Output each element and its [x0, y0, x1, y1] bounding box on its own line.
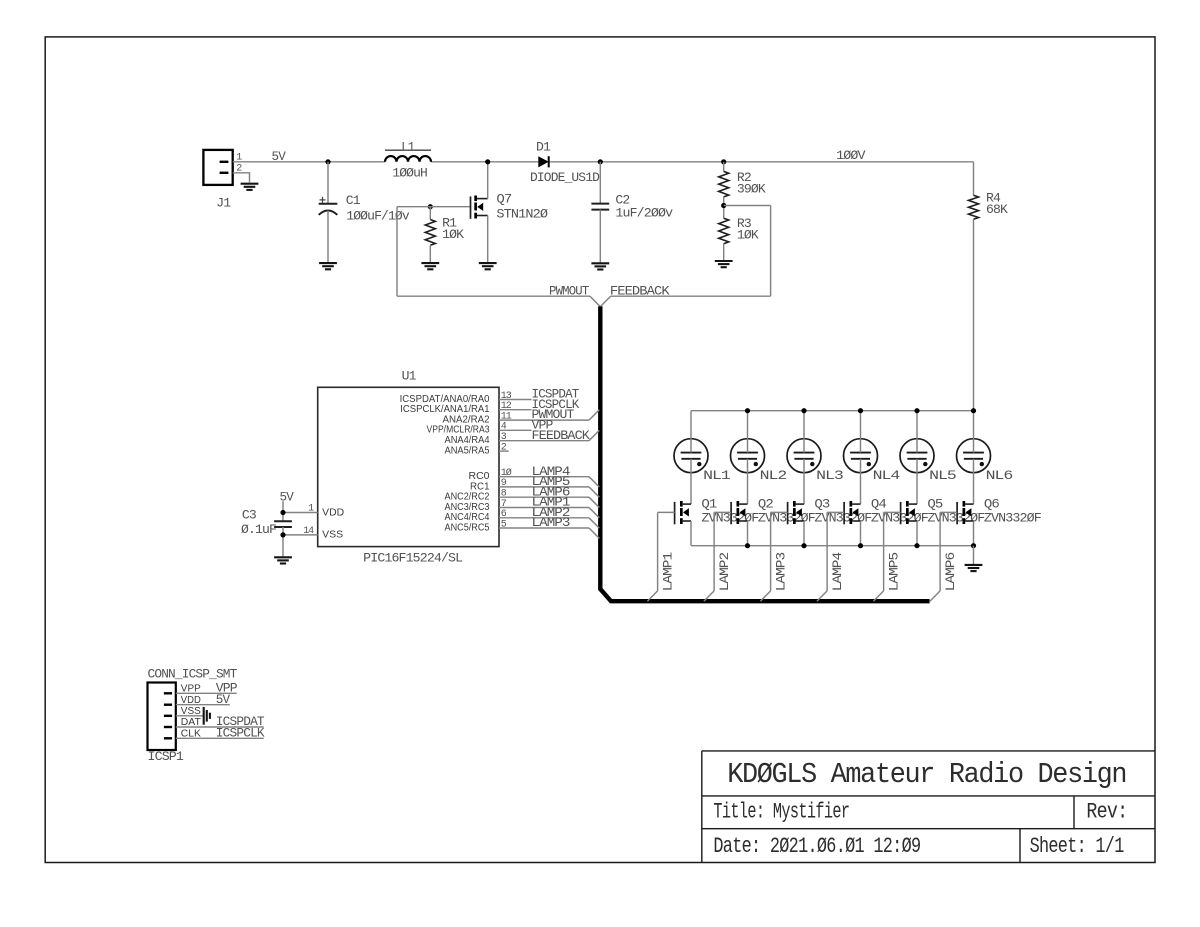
- svg-text:68K: 68K: [986, 202, 1008, 217]
- wire: bus to NL2: [747, 411, 749, 453]
- wire: Q5 source to rail: [916, 521, 918, 546]
- resistor R4: [969, 195, 979, 219]
- bus entry LAMP1: [647, 591, 657, 601]
- wire: LAMP1 vertical: [657, 512, 659, 591]
- U1 pin 7 (ANC3/RC3): [499, 507, 589, 509]
- svg-text:VPP/MCLR/RA3: VPP/MCLR/RA3: [427, 425, 490, 436]
- neon lamp NL2: [731, 439, 765, 473]
- svg-text:NL1: NL1: [703, 468, 731, 483]
- svg-text:PIC16F15224/SL: PIC16F15224/SL: [363, 550, 462, 565]
- bus entry LAMP4: [817, 591, 827, 601]
- svg-text:LAMP6: LAMP6: [943, 553, 958, 592]
- junction: bus / NL3: [801, 408, 806, 413]
- ICSP1 pin VDD: [164, 704, 172, 706]
- svg-text:LAMP3: LAMP3: [774, 553, 789, 592]
- svg-text:ANC5/RC5: ANC5/RC5: [445, 522, 490, 533]
- svg-text:VSS: VSS: [181, 706, 201, 717]
- svg-text:NL3: NL3: [816, 468, 843, 483]
- transistor Q5 (N-MOSFET): [901, 501, 917, 524]
- svg-text:U1: U1: [402, 368, 417, 383]
- diode D1: [538, 156, 548, 167]
- U1 pin 8 (ANC2/RC2): [499, 496, 589, 498]
- svg-text:1ØØuF/1Øv: 1ØØuF/1Øv: [346, 209, 410, 224]
- wire: PWMOUT down: [396, 207, 398, 297]
- wire: gate of Q6: [940, 511, 957, 513]
- svg-text:FEEDBACK: FEEDBACK: [532, 428, 591, 443]
- wire: bus to NL5: [916, 411, 918, 453]
- svg-text:L1: L1: [401, 140, 415, 155]
- wire: feedback node right: [724, 205, 771, 207]
- junction: bus / NL4: [858, 408, 863, 413]
- ground at R3: [715, 261, 733, 267]
- ground at R1: [421, 263, 439, 269]
- svg-text:D1: D1: [536, 139, 551, 154]
- wire: NL6 to Q6 drain: [973, 459, 975, 504]
- U1 pin 2 (ANA5/RA5): [499, 450, 509, 452]
- svg-text:LAMP5: LAMP5: [887, 553, 902, 592]
- wire: lamp anode bus: [691, 410, 974, 412]
- ground at ICSP VSS (sideways): [204, 707, 210, 725]
- wire: NL5 to Q5 drain: [916, 459, 918, 504]
- svg-text:Title: Mystifier: Title: Mystifier: [713, 799, 849, 824]
- U1 pin 12 (ICSPCLK/ANA1/RA1): [499, 409, 532, 411]
- bus entry LAMP5: [873, 591, 883, 601]
- svg-text:39ØK: 39ØK: [737, 182, 766, 197]
- wire: J1 pin2 to ground: [233, 173, 250, 182]
- junction: Q7 drain / rail: [485, 159, 490, 164]
- svg-text:LAMP3: LAMP3: [532, 515, 570, 530]
- transistor Q2 (N-MOSFET): [731, 501, 747, 524]
- svg-text:NL2: NL2: [760, 468, 787, 483]
- wire: NL4 to Q4 drain: [860, 459, 862, 504]
- wire: gate of Q2: [714, 511, 731, 513]
- junction: rail / Q4: [858, 543, 863, 548]
- svg-text:Rev:: Rev:: [1086, 799, 1127, 824]
- wire: source rail: [691, 545, 974, 547]
- capacitor C2: [591, 204, 609, 210]
- svg-text:LAMP1: LAMP1: [661, 552, 676, 592]
- bus entry LAMP2: [704, 591, 714, 601]
- svg-text:LAMP2: LAMP2: [717, 553, 732, 592]
- wire: LAMP5 vertical: [883, 512, 885, 591]
- junction: rail / Q6: [971, 543, 976, 548]
- resistor R2: [719, 171, 729, 197]
- svg-text:1ØK: 1ØK: [442, 227, 464, 242]
- wire: R3 bottom to ground: [723, 244, 725, 260]
- bus entry LAMP6: [589, 497, 599, 507]
- svg-text:ANA5/RA5: ANA5/RA5: [445, 446, 490, 457]
- svg-text:Date: 2Ø21.Ø6.Ø1 12:Ø9: Date: 2Ø21.Ø6.Ø1 12:Ø9: [713, 834, 920, 859]
- junction: rail / Q2: [745, 543, 750, 548]
- svg-text:VDD: VDD: [181, 695, 201, 706]
- svg-text:DIODE_US1D: DIODE_US1D: [530, 170, 600, 185]
- wire: Q4 source to rail: [860, 521, 862, 546]
- junction: R1 / Q7 gate node: [428, 204, 433, 209]
- wire: Q2 source to rail: [747, 521, 749, 546]
- wire: Q6 source to rail: [973, 521, 975, 546]
- svg-text:KDØGLS Amateur Radio Design: KDØGLS Amateur Radio Design: [727, 758, 1126, 791]
- transistor Q3 (N-MOSFET): [788, 501, 804, 524]
- svg-text:CLK: CLK: [181, 729, 201, 740]
- junction: C1 / 5V rail: [325, 159, 330, 164]
- wire: Q7 source to ground: [487, 216, 489, 263]
- transistor Q6 (N-MOSFET): [957, 501, 973, 524]
- svg-text:Q1: Q1: [701, 496, 717, 511]
- svg-text:NL5: NL5: [929, 468, 956, 483]
- svg-text:ANA4/RA4: ANA4/RA4: [445, 435, 490, 446]
- U1 pin 9 (RC1): [499, 486, 589, 488]
- junction: R2 top / rail: [721, 159, 726, 164]
- svg-text:1Ø: 1Ø: [501, 467, 512, 479]
- wire: gate of Q4: [827, 511, 844, 513]
- wire: D1 cathode to 100V rail right: [549, 161, 974, 163]
- wire: rail to C2 top: [599, 162, 601, 204]
- U1 pin 10 (RC0): [499, 476, 589, 478]
- wire: C2 bottom to ground: [599, 210, 601, 263]
- wire: bus to NL4: [860, 411, 862, 453]
- bus entry PWMOUT: [590, 296, 600, 306]
- junction: 5V / VDD / C3: [280, 510, 285, 515]
- connector ICSP1 body: [148, 683, 176, 751]
- wire: bus to NL3: [803, 411, 805, 453]
- ICSP1 pin CLK: [164, 737, 172, 739]
- wire: NL1 to Q1 drain: [690, 459, 692, 504]
- inductor L1: [385, 150, 431, 162]
- resistor R3: [719, 218, 729, 244]
- ground at source rail: [965, 565, 983, 571]
- U1 pin 3 (ANA4/RA4): [499, 440, 589, 442]
- junction: rail / Q5: [914, 543, 919, 548]
- junction: bus / NL6: [971, 408, 976, 413]
- svg-text:Q4: Q4: [871, 496, 887, 511]
- svg-text:VSS: VSS: [322, 530, 343, 541]
- U1 pin 6 (ANC4/RC4): [499, 517, 589, 519]
- wire: C1 bottom to ground: [327, 211, 329, 263]
- wire: R1 bottom to ground: [429, 245, 431, 262]
- wire: PWMOUT horizontal to bus: [397, 295, 590, 297]
- IC U1 body: [318, 387, 499, 546]
- junction: C3 / VSS: [280, 532, 285, 537]
- junction: rail / Q3: [801, 543, 806, 548]
- wire: Q1 source to rail: [690, 521, 692, 546]
- wire: LAMP3 vertical: [770, 512, 772, 591]
- neon lamp NL4: [844, 439, 878, 473]
- svg-text:LAMP4: LAMP4: [830, 552, 845, 592]
- bus entry LAMP5: [589, 487, 599, 497]
- bus entry LAMP3: [589, 528, 599, 538]
- wire: rail to ground: [973, 546, 975, 564]
- svg-text:VPP: VPP: [181, 684, 201, 695]
- ICSP1 pin VSS: [164, 715, 172, 717]
- wire: gate node horizontal: [397, 206, 471, 208]
- neon lamp NL5: [900, 439, 934, 473]
- svg-text:NL6: NL6: [986, 468, 1013, 483]
- wire: LAMP6 vertical: [939, 512, 941, 591]
- wire: gate of Q5: [884, 511, 901, 513]
- wire: node to R1 top: [429, 207, 431, 220]
- svg-text:12: 12: [501, 401, 512, 412]
- svg-text:VDD: VDD: [322, 507, 344, 518]
- svg-text:C1: C1: [346, 193, 361, 208]
- svg-text:1uF/2ØØv: 1uF/2ØØv: [615, 206, 673, 221]
- svg-text:ICSPCLK: ICSPCLK: [216, 726, 265, 741]
- svg-text:14: 14: [303, 526, 314, 537]
- bus entry FEEDBACK: [601, 296, 611, 306]
- svg-text:1ØØuH: 1ØØuH: [392, 165, 427, 180]
- connector J1: [203, 150, 232, 185]
- svg-text:Q6: Q6: [984, 496, 999, 511]
- neon lamp NL3: [787, 439, 821, 473]
- wire: rail to R2: [723, 162, 725, 172]
- svg-text:Q7: Q7: [496, 191, 511, 206]
- ground at Q7 source: [479, 263, 497, 269]
- bus entry PWMOUT: [589, 410, 599, 420]
- wire: L1 to D1: [431, 161, 538, 163]
- capacitor C3: [274, 521, 292, 527]
- svg-text:5V: 5V: [280, 489, 295, 504]
- bus (thick): vertical + bottom horizontal: [600, 306, 929, 601]
- wire: R2 bottom to R3 top: [723, 197, 725, 218]
- bus entry FEEDBACK: [589, 430, 599, 440]
- svg-text:FEEDBACK: FEEDBACK: [610, 284, 670, 299]
- svg-text:PWMOUT: PWMOUT: [549, 284, 589, 299]
- svg-text:C3: C3: [242, 508, 256, 523]
- U1 pin 13 (ICSPDAT/ANA0/RA0): [499, 399, 532, 401]
- transistor Q4 (N-MOSFET): [844, 501, 860, 524]
- ground at C1: [319, 263, 337, 269]
- wire: Q3 source to rail: [803, 521, 805, 546]
- junction: bus / NL5: [914, 408, 919, 413]
- U1 pin 4 (VPP/MCLR/RA3): [499, 429, 532, 431]
- wire: gate of Q3: [771, 511, 788, 513]
- svg-text:Ø.1uF: Ø.1uF: [241, 522, 276, 537]
- U1 pin 14 (VSS): [283, 534, 318, 536]
- U1 pin 11 (ANA2/RA2): [499, 419, 589, 421]
- svg-text:ICSP1: ICSP1: [148, 749, 185, 764]
- wire: FEEDBACK horizontal to bus: [611, 295, 771, 297]
- svg-text:Q5: Q5: [927, 496, 942, 511]
- svg-text:STN1N2Ø: STN1N2Ø: [496, 207, 548, 222]
- bus entry LAMP6: [930, 591, 940, 601]
- wire: C3 bottom to ground: [282, 527, 284, 556]
- neon lamp NL1: [674, 439, 708, 473]
- wire: rail corner down to R4: [973, 162, 975, 196]
- wire: bus to NL1: [690, 411, 692, 453]
- title block frame: [702, 751, 1155, 863]
- wire 5V rail: J1 pin1 to L1: [233, 161, 385, 163]
- ICSP1 pin VPP: [164, 692, 172, 694]
- transistor Q1 (N-MOSFET): [675, 501, 691, 524]
- svg-text:1ØØV: 1ØØV: [836, 148, 866, 163]
- wire: 5V to C3 top / pin1: [282, 501, 284, 521]
- bus entry LAMP1: [589, 508, 599, 518]
- svg-text:Q2: Q2: [758, 496, 773, 511]
- capacitor C1 (polarized): [319, 197, 338, 215]
- ICSP1 pin DAT: [164, 726, 172, 728]
- wire: NL2 to Q2 drain: [747, 459, 749, 504]
- wire: R4 bottom to lamp bus: [973, 219, 975, 411]
- wire: gate of Q1: [658, 511, 675, 513]
- bus entry LAMP4: [589, 477, 599, 487]
- wire: feedback down: [770, 206, 772, 297]
- junction: bus / NL2: [745, 408, 750, 413]
- svg-text:1ØK: 1ØK: [737, 227, 759, 242]
- bus entry LAMP3: [760, 591, 770, 601]
- ground at C2: [591, 263, 609, 269]
- wire: LAMP4 vertical: [826, 512, 828, 591]
- svg-text:ZVN332ØF: ZVN332ØF: [984, 511, 1041, 526]
- U1 pin 1 (VDD): [283, 512, 318, 514]
- ground at J1 pin2: [241, 184, 259, 190]
- junction: R2/R3 feedback node: [721, 203, 726, 208]
- wire: bus to NL6: [973, 411, 975, 453]
- wire: LAMP2 vertical: [713, 512, 715, 591]
- U1 pin 5 (ANC5/RC5): [499, 527, 589, 529]
- svg-text:J1: J1: [216, 195, 231, 210]
- svg-text:5V: 5V: [216, 692, 231, 707]
- svg-text:Sheet: 1/1: Sheet: 1/1: [1030, 834, 1125, 859]
- transistor Q7 (N-MOSFET): [471, 196, 488, 219]
- junction: D1 cathode / C2: [598, 159, 603, 164]
- neon lamp NL6: [957, 439, 991, 473]
- svg-text:ICSPCLK/ANA1/RA1: ICSPCLK/ANA1/RA1: [400, 404, 490, 415]
- resistor R1: [425, 220, 435, 246]
- bus entry LAMP2: [589, 518, 599, 528]
- ground at C3: [274, 557, 292, 563]
- wire: Q7 drain up to rail: [487, 162, 489, 199]
- wire: rail to C1 top: [327, 162, 329, 204]
- svg-text:DAT: DAT: [181, 717, 201, 728]
- svg-text:Q3: Q3: [814, 496, 829, 511]
- svg-text:CONN_ICSP_SMT: CONN_ICSP_SMT: [148, 667, 238, 682]
- svg-text:5V: 5V: [272, 149, 287, 164]
- svg-text:NL4: NL4: [873, 468, 901, 483]
- wire: NL3 to Q3 drain: [803, 459, 805, 504]
